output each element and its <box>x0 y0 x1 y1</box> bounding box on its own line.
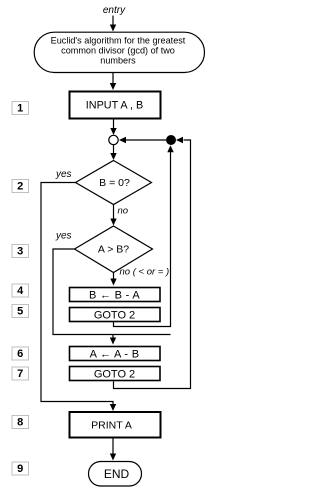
svg-text:3: 3 <box>17 246 23 258</box>
process B <- B - A <box>70 288 161 302</box>
wire GOTO2(7) feedback to dot <box>114 140 191 389</box>
label 5 <box>12 305 29 318</box>
label 7 <box>12 367 29 380</box>
svg-text:B ← B - A: B ← B - A <box>89 290 140 302</box>
svg-text:GOTO 2: GOTO 2 <box>94 310 135 322</box>
svg-text:5: 5 <box>17 306 23 318</box>
wire yes branch B=0 to PRINT A <box>41 183 113 406</box>
process GOTO 2 (step 7) <box>70 367 161 381</box>
decision A > B? <box>75 226 153 273</box>
wire circle to B=0 diamond <box>113 145 115 154</box>
node junction dot <box>166 135 176 145</box>
label 1 <box>12 102 29 115</box>
wire terminator to INPUT <box>112 73 114 85</box>
label 3 <box>12 245 29 258</box>
process GOTO 2 (step 5) <box>70 308 161 322</box>
svg-text:A ← A - B: A ← A - B <box>90 349 140 361</box>
svg-text:7: 7 <box>17 368 23 380</box>
terminator END <box>89 462 142 487</box>
svg-text:Euclid's algorithm for the gre: Euclid's algorithm for the greatest <box>51 36 186 46</box>
svg-text:B = 0?: B = 0? <box>99 177 130 189</box>
process PRINT A <box>70 412 161 438</box>
label 6 <box>12 347 29 360</box>
svg-text:INPUT A , B: INPUT A , B <box>86 100 143 112</box>
terminator start (Euclid's algorithm description) <box>34 32 204 72</box>
svg-text:numbers: numbers <box>100 56 136 66</box>
svg-text:2: 2 <box>17 181 23 193</box>
decision B = 0? <box>76 161 152 205</box>
label 2 <box>12 180 29 193</box>
label 9 <box>12 462 29 475</box>
svg-text:1: 1 <box>17 103 23 115</box>
svg-text:9: 9 <box>17 463 23 475</box>
svg-text:8: 8 <box>17 417 23 429</box>
process INPUT A , B <box>70 92 161 119</box>
wire entry to terminator <box>112 16 114 26</box>
svg-text:yes: yes <box>55 231 72 242</box>
svg-text:END: END <box>104 467 130 481</box>
svg-text:no: no <box>118 206 129 217</box>
node junction circle (step 2 entry) <box>109 135 118 144</box>
label 4 <box>12 284 29 297</box>
wire dot to circle <box>126 139 166 141</box>
wire PRINT A to END <box>112 439 114 455</box>
svg-text:PRINT A: PRINT A <box>91 420 132 432</box>
wire B=0 no to A>B <box>113 205 115 220</box>
wire GOTO2(5) feedback to dot <box>114 152 171 327</box>
label 8 <box>12 416 29 429</box>
wire yes branch A>B to box 6 <box>53 249 171 335</box>
process A <- A - B <box>70 347 161 361</box>
svg-text:GOTO 2: GOTO 2 <box>94 369 135 381</box>
svg-text:A > B?: A > B? <box>98 244 129 256</box>
svg-text:common divisor (gcd) of two: common divisor (gcd) of two <box>61 46 175 56</box>
wire A>B no to box 4 <box>113 273 115 280</box>
svg-text:yes: yes <box>55 169 72 180</box>
svg-text:entry: entry <box>103 5 126 16</box>
svg-text:6: 6 <box>17 348 23 360</box>
svg-text:4: 4 <box>17 285 24 297</box>
wire INPUT to junction circle <box>113 120 115 130</box>
svg-text:no ( < or = ): no ( < or = ) <box>120 267 170 278</box>
